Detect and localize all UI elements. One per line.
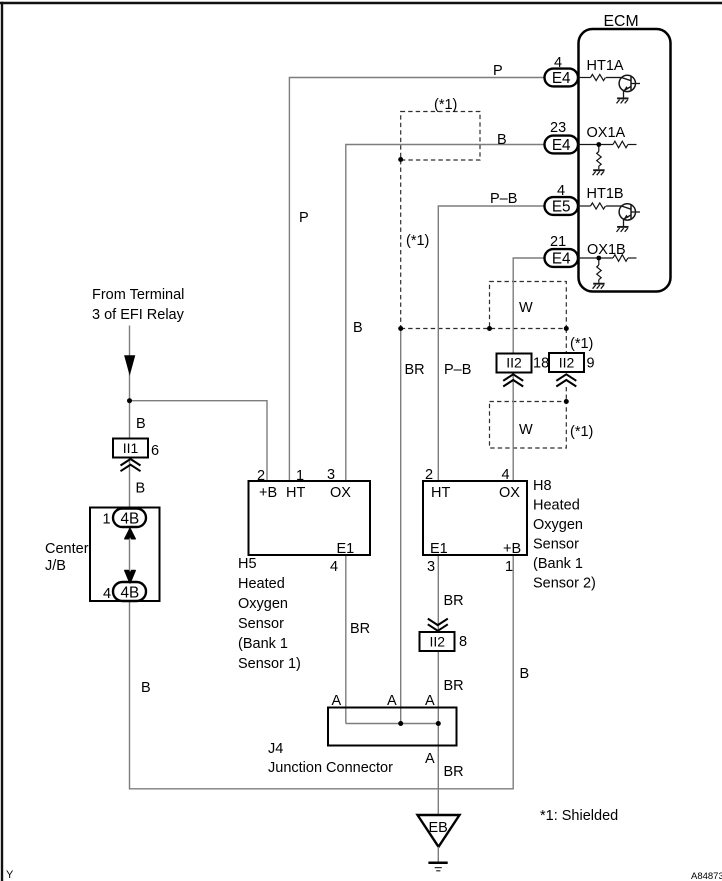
svg-text:Sensor: Sensor (533, 537, 579, 553)
svg-text:B: B (520, 666, 530, 682)
svg-text:HT: HT (286, 485, 305, 501)
svg-text:(*1): (*1) (570, 336, 593, 352)
svg-text:BR: BR (350, 621, 370, 637)
svg-text:(Bank 1: (Bank 1 (533, 556, 583, 572)
svg-text:P: P (493, 63, 503, 79)
svg-text:Heated: Heated (533, 498, 580, 514)
svg-text:8: 8 (459, 634, 467, 650)
svg-text:II1: II1 (123, 440, 139, 456)
svg-text:(Bank 1: (Bank 1 (238, 636, 288, 652)
svg-text:E4: E4 (552, 251, 571, 268)
svg-text:18: 18 (533, 356, 549, 372)
svg-text:B: B (141, 680, 151, 696)
svg-text:OX: OX (330, 485, 351, 501)
svg-text:II2: II2 (559, 355, 575, 371)
svg-text:A: A (387, 693, 397, 709)
svg-text:3: 3 (427, 559, 435, 575)
svg-text:P–B: P–B (444, 362, 471, 378)
svg-text:1: 1 (505, 559, 513, 575)
svg-text:+B: +B (259, 485, 277, 501)
svg-text:Sensor: Sensor (238, 616, 284, 632)
svg-text:W: W (519, 422, 533, 438)
svg-text:W: W (519, 300, 533, 316)
svg-text:OX: OX (499, 485, 520, 501)
svg-text:E1: E1 (430, 541, 448, 557)
svg-text:Junction Connector: Junction Connector (268, 760, 393, 776)
svg-text:23: 23 (550, 120, 566, 136)
svg-text:4: 4 (502, 467, 510, 483)
svg-text:HT: HT (431, 485, 450, 501)
svg-text:2: 2 (257, 468, 265, 484)
svg-text:3 of EFI Relay: 3 of EFI Relay (92, 307, 185, 323)
svg-text:21: 21 (550, 234, 566, 250)
svg-text:From Terminal: From Terminal (92, 287, 184, 303)
svg-text:4B: 4B (120, 584, 139, 601)
svg-text:J4: J4 (268, 741, 283, 757)
svg-text:B: B (497, 132, 507, 148)
svg-text:Oxygen: Oxygen (238, 596, 288, 612)
svg-text:(*1): (*1) (406, 233, 429, 249)
svg-text:Oxygen: Oxygen (533, 517, 583, 533)
svg-text:1: 1 (296, 468, 304, 484)
svg-text:4: 4 (330, 559, 338, 575)
svg-text:B: B (136, 481, 146, 497)
svg-text:ECM: ECM (604, 13, 639, 30)
svg-text:HT1B: HT1B (587, 186, 624, 202)
svg-text:BR: BR (444, 764, 464, 780)
svg-text:3: 3 (327, 467, 335, 483)
svg-text:E5: E5 (552, 199, 571, 216)
svg-text:4: 4 (103, 586, 111, 602)
svg-text:(*1): (*1) (570, 424, 593, 440)
svg-text:4: 4 (557, 183, 565, 199)
svg-text:BR: BR (444, 678, 464, 694)
svg-text:A: A (425, 751, 435, 767)
svg-text:B: B (353, 320, 363, 336)
svg-text:BR: BR (405, 362, 425, 378)
svg-text:OX1B: OX1B (587, 242, 626, 258)
svg-text:B: B (136, 416, 146, 432)
svg-text:6: 6 (151, 443, 159, 459)
svg-text:E1: E1 (337, 541, 355, 557)
svg-text:1: 1 (103, 512, 111, 528)
svg-text:Heated: Heated (238, 576, 285, 592)
svg-text:+B: +B (503, 541, 521, 557)
svg-text:Sensor 2): Sensor 2) (533, 576, 596, 592)
svg-text:A: A (332, 693, 342, 709)
svg-text:9: 9 (587, 356, 595, 372)
svg-text:II2: II2 (506, 355, 522, 371)
svg-text:Sensor 1): Sensor 1) (238, 656, 301, 672)
svg-text:A84873: A84873 (691, 871, 722, 881)
svg-text:(*1): (*1) (434, 97, 457, 113)
svg-text:BR: BR (444, 593, 464, 609)
svg-text:P–B: P–B (490, 191, 517, 207)
svg-text:E4: E4 (552, 137, 571, 154)
svg-text:Y: Y (6, 869, 14, 881)
svg-text:EB: EB (429, 820, 448, 836)
svg-text:4: 4 (554, 55, 562, 71)
svg-text:4B: 4B (120, 510, 139, 527)
svg-text:Center: Center (45, 541, 89, 557)
svg-text:II2: II2 (430, 634, 446, 650)
svg-text:H8: H8 (533, 478, 552, 494)
svg-text:OX1A: OX1A (587, 125, 626, 141)
svg-text:H5: H5 (238, 556, 257, 572)
svg-text:J/B: J/B (45, 558, 66, 574)
svg-text:A: A (425, 693, 435, 709)
svg-text:*1: Shielded: *1: Shielded (540, 808, 618, 824)
svg-text:HT1A: HT1A (587, 58, 624, 74)
svg-text:P: P (299, 210, 309, 226)
svg-text:2: 2 (425, 467, 433, 483)
svg-text:E4: E4 (552, 70, 571, 87)
